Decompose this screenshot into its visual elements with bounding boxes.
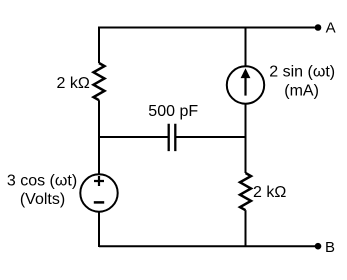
terminal dot B (315, 243, 322, 250)
wire: right branch bottom segment (245, 210, 247, 247)
wire: right branch between I1 and R2 (245, 104, 247, 173)
wire: left branch bottom segment (98, 212, 100, 247)
capacitor C1 500 pF plates (169, 124, 176, 151)
resistor R2 2 kΩ (right branch) (240, 173, 251, 210)
V1 minus sign (94, 201, 104, 204)
svg-text:3 cos (ωt): 3 cos (ωt) (7, 173, 77, 190)
wire: right branch top segment (245, 27, 247, 67)
svg-text:2 kΩ: 2 kΩ (253, 184, 286, 201)
wire: left branch between R1 and voltage source V1 (98, 100, 100, 174)
I1 arrow (upward) (244, 77, 246, 96)
svg-text:2 kΩ: 2 kΩ (56, 75, 89, 92)
svg-text:2 sin (ωt): 2 sin (ωt) (269, 64, 335, 81)
terminal dot A (315, 24, 322, 31)
svg-text:(mA): (mA) (284, 82, 319, 99)
svg-text:A: A (326, 20, 336, 37)
wire: bottom rail to terminal B (99, 245, 318, 247)
svg-text:B: B (325, 239, 335, 256)
wire: left branch top segment (98, 27, 100, 64)
svg-text:500 pF: 500 pF (148, 103, 198, 120)
svg-text:(Volts): (Volts) (20, 191, 65, 208)
V1 plus sign (94, 176, 104, 186)
resistor R1 2 kΩ (left branch) (94, 63, 105, 100)
wire: middle branch left of capacitor (99, 136, 169, 138)
wire: middle branch right of capacitor (175, 136, 245, 138)
wire: top rail from node over left branch to terminal A (99, 27, 318, 29)
current source I1 circle (227, 66, 264, 103)
voltage source V1 circle (80, 174, 117, 211)
